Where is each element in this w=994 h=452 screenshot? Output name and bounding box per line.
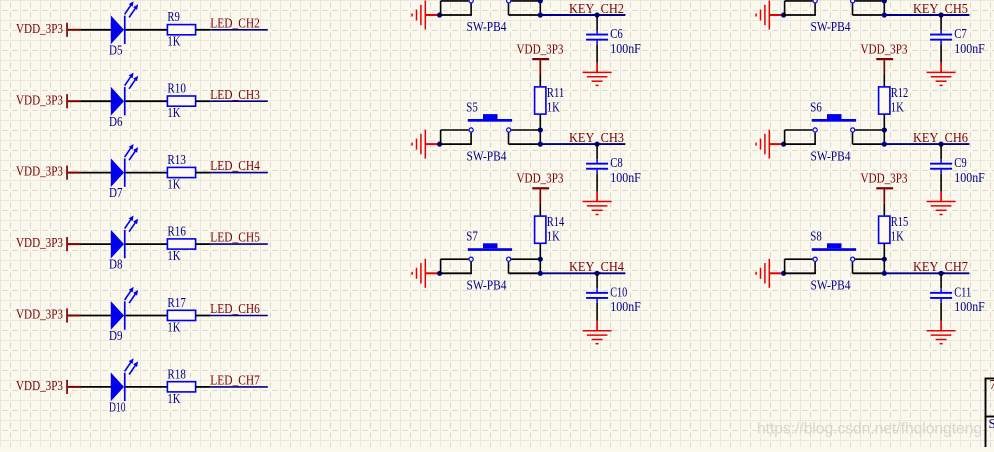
wire KEY_CH6 down to C9 xyxy=(940,144,942,159)
resistor R15 xyxy=(879,214,909,243)
value SW-PB4 (KEY_CH6 switch) xyxy=(811,148,851,163)
power port VDD_3P3 (R12) xyxy=(861,42,908,61)
svg-text:1K: 1K xyxy=(167,105,180,120)
svg-text:SW-PB4: SW-PB4 xyxy=(811,278,851,293)
wire net KEY_CH2 xyxy=(540,14,625,16)
switch SW-PB4 left contact + wire loop xyxy=(784,0,818,15)
switch S6 push-button actuator xyxy=(812,114,856,122)
switch S8 SW-PB4 right contact + wire loop xyxy=(851,257,885,273)
ground (power GND) at KEY_CH4 switch xyxy=(412,259,440,288)
designator C10 xyxy=(610,284,627,299)
value 1K (R18) xyxy=(167,391,180,406)
value SW-PB4 (KEY_CH7 switch) xyxy=(811,278,851,293)
svg-text:LED_CH4: LED_CH4 xyxy=(210,158,260,173)
resistor R14 xyxy=(535,214,565,243)
svg-text:1K: 1K xyxy=(891,99,904,114)
wire net KEY_CH3 xyxy=(540,143,625,145)
svg-text:R12: R12 xyxy=(891,85,909,100)
svg-text:SW-PB4: SW-PB4 xyxy=(467,19,507,34)
svg-text:VDD_3P3: VDD_3P3 xyxy=(517,42,564,57)
junction (KEY_CH5 pin2 / R) xyxy=(882,0,887,3)
svg-text:VDD_3P3: VDD_3P3 xyxy=(16,92,63,107)
svg-text:C10: C10 xyxy=(610,284,627,299)
value SW-PB4 (KEY_CH5 switch) xyxy=(811,19,851,34)
value 100nF (C10) xyxy=(610,299,641,314)
junction (KEY_CH5 to C7) xyxy=(939,12,944,17)
svg-text:C8: C8 xyxy=(610,155,623,170)
value 100nF (C11) xyxy=(954,299,985,314)
designator C9 xyxy=(954,155,967,170)
wire R14 to switch S7 xyxy=(539,243,541,259)
value 1K (R16) xyxy=(167,248,180,263)
sheet symbol border (bottom right, partial) xyxy=(985,378,994,447)
wire R9 to net LED_CH2 xyxy=(196,29,268,31)
wire net KEY_CH7 xyxy=(884,272,969,274)
svg-text:LED_CH7: LED_CH7 xyxy=(210,373,260,388)
svg-text:R9: R9 xyxy=(167,9,180,24)
resistor R11 xyxy=(535,85,565,114)
junction (ground-S5) xyxy=(437,142,442,147)
wire from R above (off-screen) down to KEY_CH5 xyxy=(883,0,885,2)
designator D5 xyxy=(109,42,123,57)
svg-text:D10: D10 xyxy=(109,400,126,415)
pin text fragment (sheet, top) xyxy=(990,377,994,392)
ground (power GND) below C7 xyxy=(927,63,956,86)
wire KEY_CH2 down to C6 xyxy=(596,15,598,30)
junction (S7 pin2 / R14) xyxy=(538,257,543,262)
value 100nF (C7) xyxy=(954,41,985,56)
net label LED_CH5 xyxy=(210,230,260,245)
designator D7 xyxy=(109,185,123,200)
net label LED_CH3 xyxy=(210,87,260,102)
power port VDD_3P3 (D8 row) xyxy=(16,235,68,251)
switch S7 push-button actuator xyxy=(468,243,512,251)
svg-text:VDD_3P3: VDD_3P3 xyxy=(16,307,63,322)
designator C6 xyxy=(610,26,623,41)
svg-text:1K: 1K xyxy=(891,229,904,244)
wire C8 to ground xyxy=(596,174,598,192)
svg-text:S7: S7 xyxy=(466,229,478,244)
switch S5 SW-PB4 left contact + wire loop xyxy=(440,128,474,144)
wire KEY_CH5 down to C7 xyxy=(940,15,942,30)
junction (S6 to net wire) xyxy=(882,142,887,147)
power port VDD_3P3 (R14) xyxy=(517,171,564,190)
wire R12 to switch S6 xyxy=(883,114,885,130)
value 1K (R13) xyxy=(167,177,180,192)
capacitor C7 xyxy=(930,30,952,45)
value 100nF (C9) xyxy=(954,170,985,185)
svg-text:7: 7 xyxy=(990,377,994,392)
svg-text:VDD_3P3: VDD_3P3 xyxy=(16,235,63,250)
wire C7 to ground xyxy=(940,45,942,63)
ground (power GND) below C11 xyxy=(927,321,956,344)
wire VDD_3P3 to D10 anode xyxy=(68,386,112,388)
value 1K (R12) xyxy=(891,99,904,114)
svg-text:D6: D6 xyxy=(109,114,123,129)
svg-text:R13: R13 xyxy=(167,152,186,167)
svg-text:S6: S6 xyxy=(810,99,822,114)
svg-text:C11: C11 xyxy=(954,284,971,299)
svg-text:VDD_3P3: VDD_3P3 xyxy=(861,42,908,57)
designator S7 xyxy=(466,229,478,244)
wire VDD_3P3 to R15 xyxy=(883,189,885,216)
resistor R13 xyxy=(167,152,195,178)
capacitor C8 xyxy=(586,159,608,174)
ground (power GND) at KEY_CH7 switch xyxy=(756,259,784,288)
power port VDD_3P3 (D9 row) xyxy=(16,307,68,323)
wire VDD_3P3 to R12 xyxy=(883,60,885,87)
wire VDD_3P3 to D7 anode xyxy=(68,172,112,174)
ground (power GND) at KEY_CH6 switch xyxy=(756,130,784,159)
junction (KEY_CH3 to C8) xyxy=(595,142,600,147)
net label LED_CH2 xyxy=(210,15,259,30)
net label LED_CH6 xyxy=(210,301,260,316)
value 1K (R11) xyxy=(547,99,560,114)
svg-text:R18: R18 xyxy=(167,366,186,381)
switch SW-PB4 left contact + wire loop xyxy=(440,0,474,15)
svg-text:R10: R10 xyxy=(167,81,186,96)
junction (KEY_CH5 to net wire) xyxy=(882,12,887,17)
wire R11 to switch S5 xyxy=(539,114,541,130)
svg-text:1K: 1K xyxy=(167,177,180,192)
junction (KEY_CH4 to C10) xyxy=(595,271,600,276)
svg-text:R11: R11 xyxy=(547,85,565,100)
designator C7 xyxy=(954,26,967,41)
junction (S5 to net wire) xyxy=(538,142,543,147)
net label KEY_CH7 xyxy=(913,259,968,274)
junction (KEY_CH7 to C11) xyxy=(939,271,944,276)
power port VDD_3P3 (D10 row) xyxy=(16,378,68,394)
svg-text:S5: S5 xyxy=(466,99,478,114)
ground (power GND) below C6 xyxy=(583,63,612,86)
wire VDD_3P3 to D8 anode xyxy=(68,243,112,245)
junction (S8 pin2 / R15) xyxy=(882,257,887,262)
LED D5 xyxy=(111,1,138,44)
wire R10 to net LED_CH3 xyxy=(196,100,268,102)
junction (KEY_CH6 to C9) xyxy=(939,142,944,147)
net label KEY_CH3 xyxy=(569,130,624,145)
junction (KEY_CH2 to C6) xyxy=(595,12,600,17)
svg-text:C6: C6 xyxy=(610,26,623,41)
wire D7 cathode to R13 xyxy=(126,172,168,174)
svg-text:C7: C7 xyxy=(954,26,967,41)
junction (KEY_CH2 pin2 / R) xyxy=(538,0,543,3)
LED D6 xyxy=(111,73,138,116)
junction (ground-S7) xyxy=(437,271,442,276)
resistor R17 xyxy=(167,295,195,321)
wire net KEY_CH5 xyxy=(884,14,969,16)
LED D10 xyxy=(111,358,138,401)
svg-text:VDD_3P3: VDD_3P3 xyxy=(861,171,908,186)
wire R18 to net LED_CH7 xyxy=(196,386,268,388)
designator S6 xyxy=(810,99,822,114)
switch S6 SW-PB4 right contact + wire loop xyxy=(851,128,885,144)
svg-text:100nF: 100nF xyxy=(610,299,641,314)
svg-text:R14: R14 xyxy=(547,214,565,229)
svg-text:SW-PB4: SW-PB4 xyxy=(467,148,507,163)
svg-text:D8: D8 xyxy=(109,257,123,272)
designator D10 xyxy=(109,400,126,415)
resistor R10 xyxy=(167,81,195,107)
wire KEY_CH7 down to C11 xyxy=(940,273,942,288)
net label LED_CH7 xyxy=(210,373,260,388)
svg-text:1K: 1K xyxy=(167,248,180,263)
capacitor C10 xyxy=(586,288,608,303)
resistor R16 xyxy=(167,224,195,250)
switch S5 SW-PB4 right contact + wire loop xyxy=(507,128,541,144)
wire VDD_3P3 to D6 anode xyxy=(68,100,112,102)
capacitor C11 xyxy=(930,288,952,303)
svg-text:1K: 1K xyxy=(167,391,180,406)
value 1K (R10) xyxy=(167,105,180,120)
wire VDD_3P3 to R14 xyxy=(539,189,541,216)
capacitor C6 xyxy=(586,30,608,45)
LED D9 xyxy=(111,287,138,330)
svg-text:VDD_3P3: VDD_3P3 xyxy=(16,164,63,179)
value SW-PB4 (KEY_CH4 switch) xyxy=(467,278,507,293)
svg-text:100nF: 100nF xyxy=(610,41,641,56)
net label KEY_CH6 xyxy=(913,130,968,145)
svg-text:LED_CH3: LED_CH3 xyxy=(210,87,260,102)
wire VDD_3P3 to D5 anode xyxy=(68,29,112,31)
designator C11 xyxy=(954,284,971,299)
svg-text:1K: 1K xyxy=(547,229,560,244)
net label LED_CH4 xyxy=(210,158,260,173)
ground (power GND) below C10 xyxy=(583,321,612,344)
junction (ground-S6) xyxy=(781,142,786,147)
svg-text:S: S xyxy=(989,416,994,431)
junction (S8 to net wire) xyxy=(882,271,887,276)
ground (power GND) at KEY_CH5 switch xyxy=(756,1,784,30)
junction (S6 pin2 / R12) xyxy=(882,127,887,132)
svg-text:SW-PB4: SW-PB4 xyxy=(467,278,507,293)
wire D6 cathode to R10 xyxy=(126,100,168,102)
designator S8 xyxy=(810,229,822,244)
designator D8 xyxy=(109,257,123,272)
svg-text:VDD_3P3: VDD_3P3 xyxy=(517,171,564,186)
capacitor C9 xyxy=(930,159,952,174)
designator C8 xyxy=(610,155,623,170)
value 100nF (C6) xyxy=(610,41,641,56)
wire D5 cathode to R9 xyxy=(126,29,168,31)
wire R15 to switch S8 xyxy=(883,243,885,259)
svg-text:VDD_3P3: VDD_3P3 xyxy=(16,21,63,36)
wire KEY_CH3 down to C8 xyxy=(596,144,598,159)
switch S8 SW-PB4 left contact + wire loop xyxy=(784,257,818,273)
svg-text:1K: 1K xyxy=(167,319,180,334)
resistor R9 xyxy=(167,9,195,35)
switch SW-PB4 right contact + wire loop xyxy=(851,0,885,15)
wire D8 cathode to R16 xyxy=(126,243,168,245)
value 1K (R15) xyxy=(891,229,904,244)
value 1K (R9) xyxy=(167,34,180,49)
wire C11 to ground xyxy=(940,303,942,321)
svg-text:100nF: 100nF xyxy=(954,170,985,185)
svg-text:https://blog.csdn.net/fhqlongt: https://blog.csdn.net/fhqlongteng xyxy=(757,421,982,438)
svg-text:S8: S8 xyxy=(810,229,822,244)
junction (ground-S8) xyxy=(781,271,786,276)
value SW-PB4 (KEY_CH3 switch) xyxy=(467,148,507,163)
wire net KEY_CH4 xyxy=(540,272,625,274)
resistor R12 xyxy=(879,85,909,114)
value 1K (R17) xyxy=(167,319,180,334)
wire D9 cathode to R17 xyxy=(126,315,168,317)
switch S7 SW-PB4 left contact + wire loop xyxy=(440,257,474,273)
power port VDD_3P3 (D5 row) xyxy=(16,21,68,37)
wire D10 cathode to R18 xyxy=(126,386,168,388)
svg-text:D7: D7 xyxy=(109,185,123,200)
svg-text:LED_CH6: LED_CH6 xyxy=(210,301,260,316)
svg-text:1K: 1K xyxy=(167,34,180,49)
junction (ground-KEY_CH5) xyxy=(781,12,786,17)
svg-text:100nF: 100nF xyxy=(954,41,985,56)
svg-text:R15: R15 xyxy=(891,214,909,229)
net label KEY_CH5 xyxy=(913,1,968,16)
designator S5 xyxy=(466,99,478,114)
LED D7 xyxy=(111,144,138,187)
value 100nF (C8) xyxy=(610,170,641,185)
svg-text:D5: D5 xyxy=(109,42,123,57)
wire net KEY_CH6 xyxy=(884,143,969,145)
power port VDD_3P3 (R15) xyxy=(861,171,908,190)
wire KEY_CH4 down to C10 xyxy=(596,273,598,288)
wire VDD_3P3 to D9 anode xyxy=(68,315,112,317)
svg-text:SW-PB4: SW-PB4 xyxy=(811,19,851,34)
svg-text:LED_CH5: LED_CH5 xyxy=(210,230,260,245)
svg-text:D9: D9 xyxy=(109,328,123,343)
net label KEY_CH4 xyxy=(569,259,624,274)
ground (power GND) at KEY_CH2 switch xyxy=(412,1,440,30)
power port VDD_3P3 (R11) xyxy=(517,42,564,61)
svg-text:100nF: 100nF xyxy=(954,299,985,314)
switch S7 SW-PB4 right contact + wire loop xyxy=(507,257,541,273)
ground (power GND) below C8 xyxy=(583,192,612,215)
pin text fragment (sheet, bottom) xyxy=(989,416,994,431)
junction (ground-KEY_CH2) xyxy=(437,12,442,17)
svg-text:R16: R16 xyxy=(167,224,186,239)
watermark xyxy=(757,421,982,438)
svg-text:SW-PB4: SW-PB4 xyxy=(811,148,851,163)
junction (S7 to net wire) xyxy=(538,271,543,276)
wire R16 to net LED_CH5 xyxy=(196,243,268,245)
svg-text:R17: R17 xyxy=(167,295,186,310)
svg-text:100nF: 100nF xyxy=(610,170,641,185)
ground (power GND) below C9 xyxy=(927,192,956,215)
svg-text:1K: 1K xyxy=(547,99,560,114)
designator D9 xyxy=(109,328,123,343)
wire C6 to ground xyxy=(596,45,598,63)
wire C10 to ground xyxy=(596,303,598,321)
switch S8 push-button actuator xyxy=(812,243,856,251)
wire from R above (off-screen) down to KEY_CH2 xyxy=(539,0,541,2)
junction (S5 pin2 / R11) xyxy=(538,127,543,132)
wire R13 to net LED_CH4 xyxy=(196,172,268,174)
svg-text:C9: C9 xyxy=(954,155,967,170)
designator D6 xyxy=(109,114,123,129)
junction (KEY_CH2 to net wire) xyxy=(538,12,543,17)
svg-text:VDD_3P3: VDD_3P3 xyxy=(16,378,63,393)
net label KEY_CH2 xyxy=(569,1,624,16)
wire R17 to net LED_CH6 xyxy=(196,315,268,317)
switch S6 SW-PB4 left contact + wire loop xyxy=(784,128,818,144)
value 1K (R14) xyxy=(547,229,560,244)
value SW-PB4 (KEY_CH2 switch) xyxy=(467,19,507,34)
power port VDD_3P3 (D6 row) xyxy=(16,92,68,108)
resistor R18 xyxy=(167,366,195,392)
power port VDD_3P3 (D7 row) xyxy=(16,164,68,180)
switch S5 push-button actuator xyxy=(468,114,512,122)
ground (power GND) at KEY_CH3 switch xyxy=(412,130,440,159)
wire C9 to ground xyxy=(940,174,942,192)
switch SW-PB4 right contact + wire loop xyxy=(507,0,541,15)
wire VDD_3P3 to R11 xyxy=(539,60,541,87)
svg-text:LED_CH2: LED_CH2 xyxy=(210,15,259,30)
LED D8 xyxy=(111,216,138,259)
